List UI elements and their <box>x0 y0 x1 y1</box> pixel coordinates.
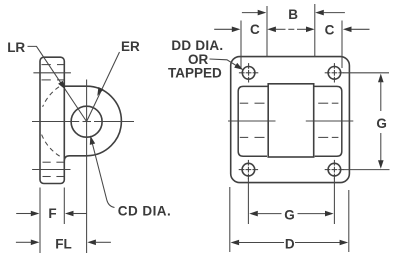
D dimension line with arrows <box>231 240 240 246</box>
top mounting hole centerline (side view) <box>33 72 71 74</box>
svg-text:CD DIA.: CD DIA. <box>118 203 171 218</box>
mounting hole top-left circle <box>242 67 255 80</box>
svg-text:B: B <box>288 7 298 22</box>
bottom mounting hole centerline (side view) <box>32 169 70 171</box>
clevis body (central rectangle) <box>268 84 314 157</box>
hidden fillet arc lower (dashed) <box>42 135 63 158</box>
DD DIA. leader line <box>210 59 244 70</box>
hidden fillet arc upper (dashed) <box>43 87 59 107</box>
bottom G dimension extension lines <box>247 178 249 224</box>
CD DIA. leader arrowhead <box>90 136 95 145</box>
horizontal centerline of CD hole <box>32 121 79 123</box>
mounting hole bottom-left crosshair ticks <box>239 160 258 179</box>
B dimension right arrow <box>315 10 324 16</box>
mounting hole bottom-right crosshair ticks <box>325 160 344 179</box>
left wing boss <box>238 86 268 156</box>
front-view flange plate outline <box>231 57 350 183</box>
right C dimension outside arrow <box>343 27 352 33</box>
F dimension left arrow <box>16 213 31 215</box>
svg-text:OR: OR <box>188 52 209 67</box>
mounting hole bottom-right circle <box>328 163 341 176</box>
LR leader line <box>28 46 87 121</box>
CD hole circle <box>71 106 102 137</box>
FL dimension right arrow <box>87 240 96 246</box>
F dimension extension lines <box>39 188 41 254</box>
top mounting hole hidden lines (side view) <box>42 64 51 66</box>
mounting hole top-left crosshair ticks <box>239 63 258 82</box>
F dimension right arrow <box>65 211 74 217</box>
horizontal centerline of front view <box>228 120 276 122</box>
side-view flange plate outline <box>40 57 64 183</box>
svg-text:G: G <box>376 116 387 131</box>
CD DIA. leader line <box>90 136 114 208</box>
mounting hole top-right circle <box>328 67 341 80</box>
B/C dimension extension lines (top) <box>240 21 242 69</box>
svg-text:ER: ER <box>121 39 140 54</box>
svg-text:C: C <box>325 22 335 37</box>
mounting hole bottom-left circle <box>242 163 255 176</box>
bottom G dimension line with arrows <box>249 211 258 217</box>
DD DIA. leader arrowhead <box>234 63 243 70</box>
right wing hidden lines <box>318 102 328 104</box>
D dimension extension lines <box>229 187 231 252</box>
ER leader arrowhead <box>97 87 103 96</box>
right G dimension extension lines <box>344 72 390 74</box>
left wing hidden lines <box>240 102 248 104</box>
B dimension left arrow <box>242 12 259 14</box>
svg-text:C: C <box>250 22 260 37</box>
left C dimension outside arrow <box>214 28 232 30</box>
right G dimension line with arrows <box>378 74 384 83</box>
side-view eye/boss outline (tangent lines + arc) <box>64 86 121 161</box>
svg-text:FL: FL <box>55 236 72 251</box>
svg-text:LR: LR <box>7 40 25 55</box>
svg-text:TAPPED: TAPPED <box>168 66 222 81</box>
mounting hole top-right crosshair ticks <box>325 63 344 82</box>
svg-text:F: F <box>48 206 56 221</box>
LR leader arrowhead <box>58 81 65 90</box>
svg-text:D: D <box>285 236 295 251</box>
right wing boss <box>314 86 342 156</box>
FL dimension left arrow <box>16 241 32 243</box>
vertical centerline of CD hole / FL extension line <box>86 80 88 254</box>
svg-text:G: G <box>284 208 295 223</box>
bottom mounting hole hidden lines (side view) <box>43 161 51 163</box>
C-C middle shared dimension line with arrows <box>267 27 276 33</box>
ER leader line <box>87 52 120 122</box>
